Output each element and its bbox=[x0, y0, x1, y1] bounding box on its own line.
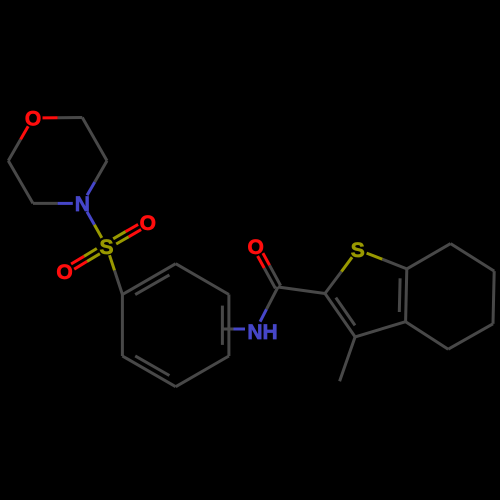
svg-text:S: S bbox=[351, 239, 365, 262]
svg-text:O: O bbox=[248, 236, 264, 259]
svg-text:S: S bbox=[99, 236, 113, 259]
svg-text:NH: NH bbox=[247, 321, 277, 344]
svg-text:N: N bbox=[75, 193, 90, 216]
svg-text:O: O bbox=[25, 108, 41, 131]
svg-text:O: O bbox=[140, 212, 156, 235]
svg-text:O: O bbox=[56, 261, 72, 284]
